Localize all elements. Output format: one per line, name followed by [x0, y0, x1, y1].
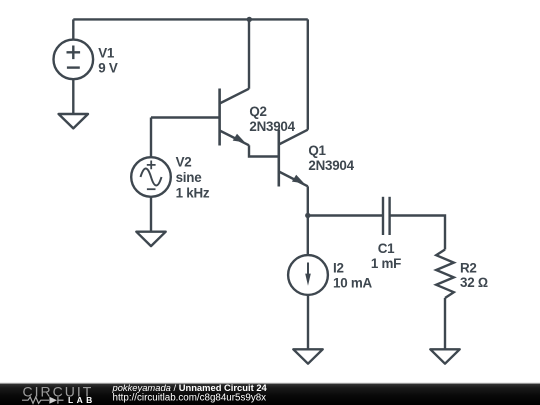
- capacitor C1: [383, 197, 390, 235]
- svg-text:10 mA: 10 mA: [333, 275, 373, 290]
- svg-text:32 Ω: 32 Ω: [460, 275, 488, 290]
- svg-text:R2: R2: [460, 261, 477, 276]
- resistor R2: [436, 250, 454, 299]
- voltage source V1: [54, 40, 94, 80]
- wire V1 bottom stub: [72, 79, 74, 114]
- svg-text:LAB: LAB: [68, 395, 96, 405]
- wire node to C1: [308, 214, 384, 216]
- svg-text:1 mF: 1 mF: [371, 256, 401, 271]
- svg-text:pokkeyamada / Unnamed Circuit: pokkeyamada / Unnamed Circuit 24: [112, 382, 268, 393]
- label V1 value: [98, 45, 118, 75]
- current source I2: [288, 255, 328, 295]
- node emitter junction: [305, 213, 310, 218]
- svg-text:http://circuitlab.com/c8g84ur5: http://circuitlab.com/c8g84ur5s9y8x: [113, 393, 267, 404]
- node junction top rail: [247, 17, 252, 22]
- wire V1 top stub: [72, 19, 74, 39]
- svg-text:V2: V2: [176, 155, 192, 170]
- svg-text:Q1: Q1: [308, 143, 326, 158]
- voltage source V2 (sine): [131, 157, 171, 197]
- label C1 value: [371, 241, 401, 271]
- label Q2 value: [249, 104, 295, 134]
- wire V2 to Q2 base: [151, 116, 220, 118]
- svg-text:2N3904: 2N3904: [308, 158, 354, 173]
- wire R2 bottom stub: [444, 298, 446, 349]
- wire top rail: [73, 18, 307, 20]
- wire Q1 collector to rail: [307, 19, 309, 129]
- ground under R2: [430, 349, 459, 363]
- svg-text:2N3904: 2N3904: [249, 119, 295, 134]
- svg-text:9 V: 9 V: [98, 60, 118, 75]
- footer divider: [0, 383, 540, 384]
- svg-text:sine: sine: [176, 170, 202, 185]
- transistor Q2: [220, 89, 249, 146]
- wire Q1 emitter to node: [307, 186, 309, 215]
- wire Q2 emitter to Q1 base: [249, 145, 279, 156]
- wire C1 to R2: [390, 216, 445, 250]
- wire V2 top stub: [150, 118, 152, 158]
- wire Q2 collector to rail: [248, 19, 250, 88]
- transistor Q1: [279, 130, 308, 187]
- label V2 value: [176, 155, 210, 201]
- wire V2 bottom stub: [150, 197, 152, 232]
- ground under V1: [59, 114, 88, 128]
- wire I2 bottom stub: [307, 295, 309, 349]
- wire node to I2: [307, 216, 309, 256]
- label R2 value: [460, 261, 488, 291]
- label Q1 value: [308, 143, 354, 173]
- svg-text:C1: C1: [378, 241, 395, 256]
- svg-text:V1: V1: [98, 45, 115, 60]
- svg-text:I2: I2: [333, 260, 344, 275]
- CircuitLab logo waveform: [22, 397, 64, 404]
- ground under V2: [136, 232, 165, 246]
- label I2 value: [333, 260, 373, 290]
- ground under I2: [293, 349, 322, 363]
- svg-text:Q2: Q2: [249, 104, 266, 119]
- svg-text:1 kHz: 1 kHz: [176, 186, 210, 201]
